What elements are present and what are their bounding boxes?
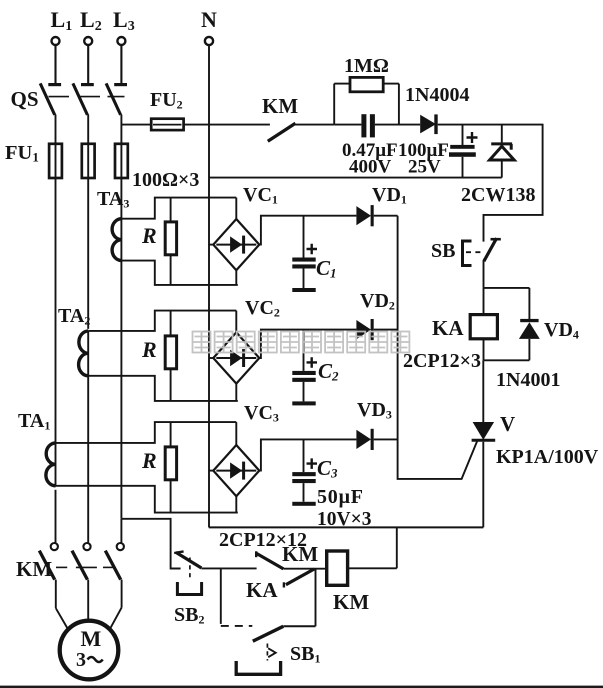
current transformer TA3 [97, 188, 129, 261]
wire phase L2 to TA2 [87, 178, 89, 329]
svg-text:SB1: SB1 [290, 643, 320, 666]
svg-text:KA: KA [246, 578, 278, 602]
svg-text:VD3: VD3 [357, 399, 392, 422]
svg-text:25V: 25V [408, 157, 441, 178]
capacitor 0.47uF 400V [334, 114, 420, 177]
svg-text:VD2: VD2 [360, 290, 395, 313]
current transformer TA2 [58, 305, 90, 376]
svg-text:2CP12×3: 2CP12×3 [403, 350, 481, 372]
svg-text:TA2: TA2 [58, 305, 90, 328]
svg-text:KP1A/100V: KP1A/100V [496, 446, 599, 468]
resistor R (channel 1) [141, 198, 177, 285]
svg-text:KM: KM [333, 590, 369, 614]
pushbutton SB (NC stop) [431, 238, 501, 288]
svg-text:VD1: VD1 [372, 184, 407, 207]
pushbutton SB2 (NO) [174, 551, 257, 626]
bottom border line [0, 686, 603, 688]
terminal L1 [51, 7, 73, 83]
zener diode 2CW138 [461, 125, 535, 206]
svg-text:L2: L2 [80, 7, 102, 34]
svg-text:R: R [141, 223, 157, 248]
contact KA (NO, relay contact) [246, 569, 314, 602]
fuse FU1 (three fuses) [5, 142, 128, 178]
svg-text:1MΩ: 1MΩ [344, 55, 389, 77]
bridge rectifier VC3 [209, 402, 356, 513]
svg-text:SB: SB [431, 240, 455, 262]
svg-text:KM: KM [262, 94, 298, 118]
wire TA1 secondary loop [56, 422, 238, 512]
capacitor 100uF 25V [398, 125, 478, 178]
svg-text:M: M [81, 626, 102, 651]
svg-text:KM: KM [282, 542, 318, 566]
svg-text:TA1: TA1 [18, 410, 50, 433]
wire TA2 secondary loop [88, 311, 238, 401]
svg-text:VC1: VC1 [243, 184, 278, 207]
svg-text:VC3: VC3 [244, 402, 279, 425]
svg-text:1N4004: 1N4004 [405, 84, 469, 106]
resistor 1M ohm [334, 55, 399, 125]
thyristor V KP1A/100V [472, 360, 599, 527]
svg-text:N: N [201, 7, 217, 32]
wire TA coils to KM contacts [56, 261, 122, 543]
svg-text:C2: C2 [318, 359, 339, 384]
contactor coil KM [327, 527, 397, 614]
svg-text:FU1: FU1 [5, 142, 39, 165]
terminal N [201, 7, 217, 45]
terminal L2 [80, 7, 102, 83]
wire phase L3 to TA3 [120, 178, 122, 219]
resistor R (channel 2) [141, 311, 177, 401]
switch QS (3-pole knife switch) [11, 83, 128, 143]
svg-text:FU2: FU2 [150, 89, 183, 112]
svg-text:L1: L1 [51, 7, 73, 34]
svg-text:3: 3 [76, 649, 86, 671]
svg-text:R: R [141, 448, 157, 473]
svg-text:VD4: VD4 [544, 319, 579, 342]
svg-text:100Ω×3: 100Ω×3 [132, 169, 199, 191]
svg-text:TA3: TA3 [97, 188, 129, 211]
svg-text:R: R [141, 337, 157, 362]
svg-text:KA: KA [432, 316, 464, 340]
diode 1N4004 [405, 84, 543, 134]
svg-text:C3: C3 [317, 456, 338, 481]
contact KM (NO auxiliary, seal-in path) [256, 542, 327, 569]
contact KM (NO, in rectifier supply line) [262, 94, 334, 141]
diode VD4 (flyback 1N4001) [484, 288, 579, 360]
diode VD1 [356, 184, 406, 226]
contactor KM main contacts [16, 519, 124, 581]
svg-text:C1: C1 [316, 256, 337, 281]
watermark (decorative) [193, 332, 410, 353]
bridge rectifier VC1 [209, 184, 356, 285]
wire VD cathode rail to thyristor gate [398, 216, 478, 479]
bridge rectifier VC2 [209, 297, 356, 401]
svg-text:2CW138: 2CW138 [461, 184, 535, 206]
capacitor C1 [292, 216, 336, 292]
capacitor C3 [292, 439, 338, 505]
wire phase L1 to TA1 [55, 178, 57, 443]
relay coil KA [432, 288, 497, 360]
svg-text:1N4001: 1N4001 [496, 369, 560, 391]
diode VD2 [356, 290, 397, 340]
wire rail from N to zener bottom [209, 177, 502, 179]
wire TA3 secondary loop [121, 198, 237, 285]
capacitor C2 [292, 330, 339, 406]
terminal L3 [113, 7, 135, 83]
current transformer TA1 [18, 410, 56, 486]
svg-text:KM: KM [16, 557, 52, 581]
svg-text:50μF: 50μF [317, 486, 364, 508]
svg-text:QS: QS [11, 87, 39, 111]
svg-text:L3: L3 [113, 7, 135, 34]
fuse FU2 [121, 89, 270, 130]
diode VD3 [356, 399, 397, 450]
svg-text:V: V [500, 412, 515, 436]
svg-text:VC2: VC2 [245, 297, 280, 320]
wire control tap from L3 phase [121, 519, 180, 569]
wire bottom rail [209, 526, 484, 528]
resistor R (channel 3) [141, 422, 177, 512]
motor M 3-phase [56, 580, 122, 680]
svg-text:SB2: SB2 [174, 604, 204, 627]
wire right dc rail down to SB [484, 124, 543, 242]
svg-text:400V: 400V [349, 157, 392, 178]
pushbutton SB1 (NO start) branch [221, 569, 321, 675]
wire neutral rail N [208, 45, 210, 527]
